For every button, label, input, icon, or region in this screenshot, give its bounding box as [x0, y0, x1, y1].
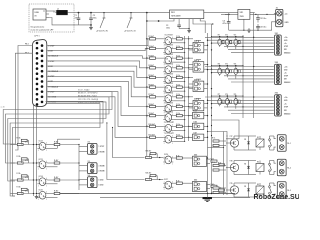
- svg-text:R2 4k7: R2 4k7: [149, 45, 155, 48]
- svg-text:VR1: VR1: [240, 12, 244, 14]
- wire gnd return from PSU: [49, 18, 91, 25]
- svg-text:R 1k: R 1k: [176, 46, 180, 48]
- nodes at XS1 rails: [207, 37, 255, 47]
- svg-text:+5 Volt VC_IN: +5 Volt VC_IN: [96, 30, 108, 33]
- nodes at XS2 rails: [207, 66, 255, 77]
- ground rail bottom 2: [100, 197, 250, 199]
- label +5v: [285, 13, 288, 15]
- svg-text:если не усановлен LPT: если не усановлен LPT: [31, 30, 55, 32]
- input row 2: resistors, optocoupler OC13: [11, 156, 80, 171]
- node cap2 junction: [90, 12, 92, 26]
- channel row 11: resistor R11, optocoupler OC11, resistor: [146, 133, 193, 145]
- wire +12V feed: [147, 13, 238, 15]
- svg-text:X4: X4: [88, 174, 90, 177]
- svg-text:OC8 PC817: OC8 PC817: [165, 102, 174, 104]
- svg-text:VT1: VT1: [218, 35, 221, 37]
- svg-text:VT2: VT2: [225, 35, 228, 37]
- vertical rail B (x=188.6): [188, 36, 190, 141]
- svg-text:470u: 470u: [223, 22, 227, 25]
- svg-text:R3 4k7: R3 4k7: [149, 55, 155, 58]
- svg-text:DA3: DA3: [194, 78, 197, 81]
- svg-text:OC10 PC817: OC10 PC817: [165, 122, 175, 124]
- svg-text:K3: K3: [257, 184, 259, 186]
- svg-text:R 1k: R 1k: [176, 75, 180, 77]
- driver block DA3: [189, 78, 213, 91]
- svg-text:R 1k: R 1k: [212, 162, 215, 164]
- ground bar (thick): [203, 197, 213, 202]
- svg-text:ОТК. ОТК. ОТК - ВЫХОД: ОТК. ОТК. ОТК - ВЫХОД: [78, 99, 99, 101]
- svg-text:VT3: VT3: [234, 35, 237, 37]
- vertical rail relay left: [224, 132, 228, 196]
- svg-text:VT9: VT9: [234, 94, 237, 96]
- capacitor C5 100n: [256, 14, 266, 22]
- terminal XS3 axis 3: [275, 93, 282, 116]
- svg-text:+5 Volt VC_IO: +5 Volt VC_IO: [124, 30, 136, 33]
- DB25 left pin labels: [25, 44, 29, 55]
- channel row 6: resistor R6, optocoupler OC6, resistor: [146, 83, 193, 95]
- svg-text:R11 4k7: R11 4k7: [149, 134, 155, 137]
- channel row 9: resistor R9, optocoupler OC9, resistor: [146, 111, 193, 123]
- svg-text:1 STOP: 1 STOP: [99, 146, 106, 148]
- svg-text:R 10k: R 10k: [17, 138, 21, 140]
- wire DB25 shell ground down: [35, 107, 39, 199]
- svg-text:X3: X3: [88, 161, 90, 163]
- input row 4: resistors, optocoupler OC15: [11, 187, 80, 202]
- svg-text:OC17: OC17: [164, 179, 168, 181]
- channel row 3: resistor R3, optocoupler OC3, resistor: [146, 54, 193, 66]
- svg-text:100n: 100n: [166, 28, 170, 30]
- inductor L1 (black body): [49, 8, 74, 15]
- node VR input: [225, 14, 230, 16]
- svg-text:OC2 PC817: OC2 PC817: [165, 44, 174, 46]
- svg-text:7805: 7805: [240, 16, 244, 18]
- svg-text:R7 4k7: R7 4k7: [149, 93, 155, 96]
- relay driver row 1: optocoupler OC16, block DA8, gate resistors: [163, 153, 224, 166]
- regulator VR1 7805: [238, 9, 250, 19]
- svg-text:+12v: +12v: [284, 37, 288, 39]
- vertical rail F (x=243.0): [242, 35, 244, 118]
- IC DD1 74HC245 buffer: [170, 10, 204, 19]
- channel row 2: resistor R2, optocoupler OC2, resistor: [146, 44, 193, 56]
- svg-text:100n: 100n: [75, 17, 79, 19]
- terminal X1 power: [276, 7, 283, 26]
- svg-text:C5 100n: C5 100n: [260, 18, 266, 20]
- svg-text:74HC245N: 74HC245N: [171, 15, 181, 18]
- wire relay feed 1: [208, 120, 240, 148]
- channel row 1: resistor R1, optocoupler OC1, resistor: [146, 35, 193, 47]
- net flag +5 Volt VC_IN: [96, 12, 108, 33]
- wire DD1 pin20 to +5 rail: [146, 19, 174, 22]
- svg-text:100u: 100u: [93, 17, 97, 19]
- wire +5V top rail: [74, 12, 255, 14]
- svg-text:R 1k: R 1k: [25, 142, 28, 144]
- svg-text:R 10k: R 10k: [17, 187, 21, 189]
- svg-text:R 10k: R 10k: [17, 156, 21, 158]
- svg-text:OC6 PC817: OC6 PC817: [165, 83, 174, 85]
- svg-text:LPT 1: LPT 1: [34, 36, 39, 38]
- svg-text:DA6: DA6: [194, 120, 197, 123]
- svg-text:RoboZone.SU: RoboZone.SU: [254, 194, 300, 201]
- vertical rail C (x=207.5): [207, 33, 209, 194]
- driver block DA4: [189, 98, 213, 111]
- svg-text:R 1k: R 1k: [176, 56, 180, 58]
- svg-text:+5v: +5v: [284, 43, 287, 45]
- svg-text:K1: K1: [257, 137, 259, 139]
- nodes at XS3 rails: [207, 96, 255, 107]
- ground at DD1: [187, 19, 191, 33]
- transistors VT7-9 axis 3: [211, 94, 244, 109]
- svg-text:OC7 PC817: OC7 PC817: [165, 93, 174, 95]
- svg-text:R 1k: R 1k: [212, 138, 215, 140]
- wire rail to VR input: [253, 13, 255, 15]
- ground rail bottom: [60, 193, 235, 195]
- svg-text:2 HOME: 2 HOME: [99, 151, 105, 153]
- capacitor C3 100n at DD1: [166, 19, 189, 30]
- driver block DA6: [189, 120, 209, 129]
- vertical rail E (x=253.7): [253, 14, 255, 118]
- vertical rail A (x=184.6): [184, 36, 186, 141]
- svg-text:XS1: XS1: [275, 33, 278, 35]
- label left edge: [1, 107, 5, 109]
- channel row 10: resistor R10, optocoupler OC10, resistor: [146, 122, 193, 134]
- ground under C2: [89, 26, 93, 30]
- dashed enclosure (optional PSU): [29, 4, 74, 32]
- driver block DA1: [189, 40, 213, 53]
- svg-text:R 22: R 22: [211, 159, 214, 161]
- svg-text:R 1k: R 1k: [176, 94, 180, 96]
- PSU module A1: [33, 9, 49, 20]
- svg-text:R 1k: R 1k: [176, 155, 179, 157]
- node cap1 junction: [78, 12, 80, 14]
- capacitor C4 470u: [221, 14, 231, 30]
- svg-text:OC13: OC13: [39, 159, 43, 161]
- svg-text:XS3: XS3: [275, 93, 278, 95]
- wire PB.1 left loop: [15, 46, 32, 151]
- transistors VT1-3 axis 1: [211, 35, 244, 50]
- svg-text:OC5 PC817: OC5 PC817: [165, 73, 174, 75]
- svg-text:R 1k: R 1k: [176, 36, 180, 38]
- terminal XS2 axis 2: [275, 62, 282, 84]
- svg-text:R 1k: R 1k: [176, 104, 180, 106]
- driver block DA5: [189, 110, 209, 119]
- relay circuit 2: transistor VT8, diode, relay K2, terminal RL.2: [212, 159, 291, 176]
- svg-text:R6 4k7: R6 4k7: [149, 84, 155, 87]
- svg-text:R10 4k7: R10 4k7: [149, 123, 155, 126]
- svg-text:6 GND: 6 GND: [99, 185, 105, 187]
- connector XP1 LPT DB25: [32, 36, 46, 107]
- svg-text:OC1 PC817: OC1 PC817: [165, 35, 174, 37]
- svg-text:VT8: VT8: [230, 161, 233, 163]
- node vertical rail top: [146, 12, 148, 14]
- wires to XS3: [205, 97, 290, 116]
- svg-text:VT7: VT7: [218, 94, 221, 96]
- wire stub DB25 bottom: [33, 105, 80, 197]
- DB25 pin labels: [48, 45, 59, 103]
- svg-text:cx 25: cx 25: [1, 107, 5, 109]
- vertical rail +5V left of rows: [146, 13, 148, 158]
- watermark RoboZone.SU: [254, 194, 300, 201]
- svg-text:ВНИМ - НЕ ПУТАТЬ 5В/12В: ВНИМ - НЕ ПУТАТЬ 5В/12В: [78, 101, 101, 104]
- terminal X4 inputs: [79, 174, 104, 188]
- transistors VT4-6 axis 2: [211, 63, 244, 79]
- svg-text:GND: GND: [285, 22, 290, 24]
- svg-text:+5v: +5v: [284, 103, 287, 105]
- svg-text:X1: X1: [276, 7, 278, 9]
- wire feed C1: [112, 127, 163, 159]
- terminal X3 inputs: [79, 161, 105, 174]
- svg-text:5 GND: 5 GND: [99, 180, 105, 182]
- channel row 7: resistor R7, optocoupler OC7, resistor: [146, 93, 193, 105]
- svg-text:ВХ.ВЫ.ВХ НТВ - PC817: ВХ.ВЫ.ВХ НТВ - PC817: [78, 96, 97, 98]
- svg-text:R 10k: R 10k: [17, 173, 21, 175]
- channel row 8: resistor R8, optocoupler OC8, resistor: [146, 102, 193, 114]
- capacitor C1 100n: [75, 13, 81, 25]
- svg-text:VT7: VT7: [230, 136, 233, 138]
- svg-text:OC3 PC817: OC3 PC817: [165, 54, 174, 56]
- svg-text:OC15: OC15: [39, 190, 43, 192]
- svg-text:DD1: DD1: [171, 12, 175, 14]
- channel row 4: resistor R4, optocoupler OC4, resistor: [146, 63, 193, 76]
- svg-text:VT6: VT6: [234, 64, 237, 66]
- channel row 5: resistor R5, optocoupler OC5, resistor: [146, 73, 193, 85]
- note text optional LPT: [31, 27, 55, 32]
- svg-text:L1: L1: [57, 8, 59, 10]
- net flag +5 Volt VC_IO: [124, 12, 136, 33]
- svg-text:3 HOME: 3 HOME: [99, 166, 105, 168]
- svg-text:VT8: VT8: [225, 94, 228, 96]
- svg-text:RL.2: RL.2: [287, 167, 291, 169]
- svg-text:R 1k: R 1k: [212, 185, 215, 187]
- bus wires HOME nested loop: [3, 92, 112, 196]
- relay driver row 2: optocoupler OC17, block DA9, gate resistors: [163, 179, 224, 192]
- driver block DA7: [189, 131, 209, 140]
- svg-text:USB: USB: [35, 12, 40, 14]
- svg-text:R 1k: R 1k: [176, 65, 180, 67]
- svg-text:OC9 PC817: OC9 PC817: [165, 111, 174, 113]
- terminal X2 inputs: [79, 142, 105, 155]
- svg-text:DA2: DA2: [194, 59, 197, 62]
- ground rail top right: [229, 28, 272, 32]
- wires to XS2: [205, 66, 290, 84]
- capacitor C2 100u: [89, 13, 96, 25]
- svg-text:DA1: DA1: [194, 40, 197, 43]
- svg-text:R 1k: R 1k: [176, 85, 180, 87]
- svg-text:X2: X2: [88, 142, 90, 144]
- svg-text:R8 4k7: R8 4k7: [149, 103, 155, 106]
- svg-text:OC16: OC16: [164, 154, 168, 156]
- svg-text:OC11 PC817: OC11 PC817: [165, 133, 175, 135]
- vertical rail D (x=211.5): [207, 24, 212, 194]
- wire VR1 gnd pin: [243, 19, 244, 31]
- terminal XS1 axis 1: [275, 33, 282, 55]
- svg-text:R4 4k7: R4 4k7: [149, 64, 155, 67]
- svg-text:R9 4k7: R9 4k7: [149, 112, 155, 115]
- svg-text:DA5: DA5: [194, 110, 197, 113]
- svg-text:DA4: DA4: [194, 98, 197, 101]
- svg-text:VT9: VT9: [230, 183, 233, 185]
- svg-text:R 1k: R 1k: [176, 135, 180, 137]
- wire DD1 out right: [193, 19, 213, 25]
- wire X1 lower to gnd: [272, 13, 276, 30]
- svg-text:ВХ.ВХ.ОТ - ОПТОПАРЫ: ВХ.ВХ.ОТ - ОПТОПАРЫ: [78, 92, 98, 95]
- svg-text:XS2: XS2: [275, 62, 278, 64]
- svg-text:+5v: +5v: [285, 13, 288, 15]
- svg-text:R 1k: R 1k: [25, 160, 28, 162]
- svg-text:RL.1: RL.1: [287, 143, 291, 145]
- svg-text:VT5: VT5: [225, 64, 228, 66]
- relay circuit 3: transistor VT9, diode, relay K3, terminal RL.3: [212, 182, 291, 199]
- vertical link bottom-left: [78, 144, 79, 190]
- wire feed C2: [106, 122, 163, 180]
- input row 1: resistors, optocoupler OC12: [11, 138, 80, 153]
- svg-text:R 1k: R 1k: [176, 124, 180, 126]
- driver block DA2: [189, 59, 213, 72]
- svg-text:RL.3: RL.3: [287, 190, 291, 192]
- svg-text:+12v: +12v: [284, 97, 288, 99]
- svg-text:DA7: DA7: [194, 131, 197, 134]
- bus wires LPT to channel rows: [47, 39, 148, 138]
- svg-text:R 1k: R 1k: [176, 181, 179, 183]
- svg-text:R1 4k7: R1 4k7: [149, 35, 155, 38]
- svg-text:K2: K2: [257, 162, 259, 164]
- svg-text:PB.2: PB.2: [25, 53, 29, 55]
- svg-text:R 1k: R 1k: [176, 113, 180, 115]
- svg-text:R5 4k7: R5 4k7: [149, 74, 155, 77]
- notes text block: [78, 90, 101, 104]
- svg-text:R 1k: R 1k: [25, 177, 28, 179]
- label GND: [285, 22, 290, 24]
- wire VR1 output: [250, 14, 276, 15]
- svg-text:X1,X2 - ХОДЫ: X1,X2 - ХОДЫ: [78, 90, 90, 92]
- wires to XS1: [205, 37, 290, 54]
- svg-text:+5v: +5v: [284, 73, 287, 75]
- capacitor C6 100u: [256, 24, 266, 31]
- node rail C bottom: [207, 193, 212, 198]
- wire DD1 pin10: [200, 19, 205, 33]
- svg-text:+12v: +12v: [284, 66, 288, 68]
- svg-text:OC12: OC12: [39, 141, 43, 143]
- svg-text:Опционально: Опционально: [31, 27, 45, 29]
- svg-text:C6 100u: C6 100u: [260, 27, 266, 29]
- relay circuit 1: transistor VT7, diode, relay K1, terminal RL.1: [212, 135, 291, 152]
- svg-text:R 1k: R 1k: [25, 191, 28, 193]
- input row 3: resistors, optocoupler OC14: [11, 173, 80, 188]
